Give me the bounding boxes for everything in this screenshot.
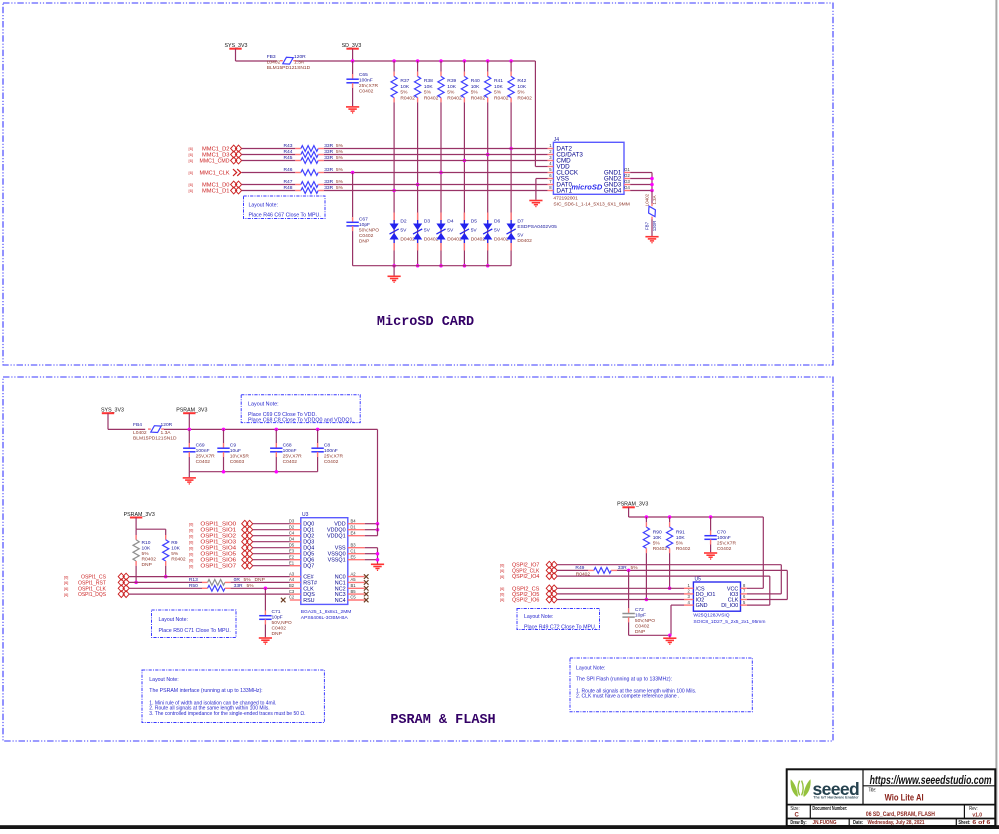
svg-text:D0402: D0402 — [494, 236, 509, 242]
svg-text:[6]: [6] — [189, 557, 193, 562]
svg-text:DNP: DNP — [359, 239, 369, 245]
svg-text:5V: 5V — [471, 228, 478, 234]
svg-text:10K: 10K — [471, 84, 480, 90]
svg-text:33R: 33R — [324, 185, 333, 191]
svg-text:Place R50 C71 Close To MPU.: Place R50 C71 Close To MPU. — [159, 628, 231, 634]
svg-text:1.3A: 1.3A — [161, 430, 172, 436]
svg-text:D0402: D0402 — [447, 236, 462, 242]
svg-text:5%: 5% — [171, 551, 179, 557]
svg-text:BLM15PD121SN1D: BLM15PD121SN1D — [133, 435, 177, 441]
svg-text:C0603: C0603 — [230, 459, 245, 465]
svg-text:Title:: Title: — [869, 787, 877, 793]
svg-text:BGA25_1_8x8x1_2MM: BGA25_1_8x8x1_2MM — [301, 609, 352, 615]
svg-text:120R: 120R — [294, 54, 306, 60]
svg-text:R0402: R0402 — [471, 95, 486, 101]
svg-text:5%: 5% — [517, 90, 525, 96]
svg-text:5%: 5% — [631, 565, 639, 571]
svg-text:[6]: [6] — [500, 562, 504, 567]
svg-text:DQ7: DQ7 — [303, 564, 314, 570]
svg-text:R0402: R0402 — [676, 546, 691, 552]
svg-text:E4: E4 — [350, 530, 356, 535]
svg-text:5%: 5% — [494, 90, 502, 96]
svg-text:10K: 10K — [494, 84, 503, 90]
svg-text:5%: 5% — [653, 540, 661, 546]
svg-text:Wio Lite AI: Wio Lite AI — [885, 792, 924, 802]
svg-text:0R: 0R — [234, 577, 241, 583]
svg-text:Layout Note:: Layout Note: — [149, 677, 178, 683]
svg-text:D5: D5 — [471, 218, 478, 224]
svg-text:C0402: C0402 — [196, 459, 211, 465]
svg-text:[6]: [6] — [64, 574, 68, 579]
svg-text:SIC_SD6-1_1-14_5X13_6X1_9MM: SIC_SD6-1_1-14_5X13_6X1_9MM — [553, 201, 629, 207]
svg-text:E2: E2 — [289, 554, 295, 559]
svg-text:Wednesday, July 28, 2021: Wednesday, July 28, 2021 — [868, 820, 925, 826]
svg-text:10K: 10K — [424, 84, 433, 90]
svg-text:2. CLK must have a compete ref: 2. CLK must have a compete reference pla… — [576, 694, 679, 700]
svg-text:[6]: [6] — [189, 551, 193, 556]
svg-text:120R: 120R — [652, 221, 657, 232]
svg-text:B1: B1 — [350, 583, 356, 588]
svg-text:10K: 10K — [447, 84, 456, 90]
svg-text:ESDPSA0402V05: ESDPSA0402V05 — [517, 224, 557, 230]
svg-text:472192001: 472192001 — [553, 196, 578, 202]
svg-text:[6]: [6] — [500, 574, 504, 579]
svg-text:MMC1_CMD: MMC1_CMD — [200, 159, 230, 165]
svg-text:10pF: 10pF — [272, 615, 283, 621]
svg-text:D1: D1 — [350, 524, 356, 529]
svg-text:MMC1_CLK: MMC1_CLK — [200, 171, 230, 177]
svg-text:[6]: [6] — [64, 580, 68, 585]
svg-text:Rev:: Rev: — [969, 806, 978, 812]
svg-text:[6]: [6] — [189, 521, 193, 526]
svg-text:FB3: FB3 — [267, 54, 276, 60]
svg-text:FB7: FB7 — [645, 221, 650, 230]
svg-text:C69: C69 — [196, 442, 205, 448]
svg-text:R44: R44 — [284, 149, 293, 155]
svg-text:https://www.seeedstudio.com: https://www.seeedstudio.com — [870, 773, 992, 787]
svg-text:33R: 33R — [618, 565, 627, 571]
svg-text:DNP: DNP — [635, 629, 645, 635]
svg-text:R42: R42 — [517, 78, 526, 84]
svg-text:OSPI1_DQS: OSPI1_DQS — [78, 592, 106, 598]
svg-text:[6]: [6] — [189, 158, 193, 163]
svg-text:R0402: R0402 — [653, 546, 668, 552]
svg-text:33R: 33R — [324, 149, 333, 155]
svg-text:5%: 5% — [447, 90, 455, 96]
svg-text:C0402: C0402 — [635, 624, 650, 630]
svg-text:5V: 5V — [517, 232, 524, 238]
svg-text:Layout Note:: Layout Note: — [159, 617, 188, 623]
svg-text:10K: 10K — [171, 546, 180, 552]
svg-text:5%: 5% — [336, 167, 344, 173]
svg-text:BLM15PD121SN1D: BLM15PD121SN1D — [267, 65, 311, 71]
svg-text:10K: 10K — [517, 84, 526, 90]
svg-text:C2: C2 — [289, 595, 295, 600]
svg-text:5%: 5% — [336, 149, 344, 155]
svg-text:The IoT Hardware Enabler: The IoT Hardware Enabler — [813, 795, 859, 799]
svg-text:C0402: C0402 — [359, 233, 374, 239]
svg-text:10V,X5R: 10V,X5R — [230, 453, 250, 459]
svg-text:33R: 33R — [324, 143, 333, 149]
svg-text:[6]: [6] — [500, 592, 504, 597]
svg-text:D0402: D0402 — [517, 238, 532, 244]
svg-text:06 SD_Card, PSRAM, FLASH: 06 SD_Card, PSRAM, FLASH — [866, 811, 935, 818]
svg-text:6 of 6: 6 of 6 — [972, 820, 990, 826]
svg-text:DNP: DNP — [142, 562, 152, 568]
svg-text:D2: D2 — [400, 218, 407, 224]
svg-text:R10: R10 — [142, 540, 151, 546]
svg-text:B3: B3 — [350, 542, 356, 547]
svg-text:D0402: D0402 — [424, 236, 439, 242]
svg-text:R0402: R0402 — [142, 557, 157, 563]
svg-text:NC4: NC4 — [335, 598, 346, 604]
svg-text:R37: R37 — [400, 78, 409, 84]
svg-text:D5: D5 — [289, 542, 295, 547]
svg-text:DNP: DNP — [255, 577, 265, 583]
svg-text:SOIC8_1D27_5_2x5_2x1_95mm: SOIC8_1D27_5_2x5_2x1_95mm — [693, 619, 765, 625]
svg-text:5%: 5% — [336, 185, 344, 191]
svg-text:10K: 10K — [653, 535, 662, 541]
svg-text:C67: C67 — [359, 217, 368, 223]
svg-text:L0402: L0402 — [133, 430, 147, 436]
svg-text:5%: 5% — [676, 540, 684, 546]
svg-text:v1.0: v1.0 — [972, 813, 982, 819]
svg-text:C72: C72 — [635, 607, 644, 613]
svg-text:[6]: [6] — [189, 563, 193, 568]
svg-text:10K: 10K — [400, 84, 409, 90]
svg-text:B5: B5 — [350, 589, 356, 594]
svg-text:D4: D4 — [289, 536, 295, 541]
svg-text:1.3A: 1.3A — [294, 59, 305, 65]
svg-text:MMC1_D1: MMC1_D1 — [202, 189, 230, 195]
svg-text:5%: 5% — [400, 90, 408, 96]
svg-text:QSPI2_IO6: QSPI2_IO6 — [512, 598, 539, 604]
svg-text:Layout Note:: Layout Note: — [524, 614, 553, 620]
svg-text:APS6406L-3OBM-BA: APS6406L-3OBM-BA — [301, 615, 349, 621]
svg-text:C0402: C0402 — [283, 459, 298, 465]
svg-text:[6]: [6] — [189, 146, 193, 151]
svg-text:120R: 120R — [161, 422, 173, 428]
svg-text:OSPI1_SIO7: OSPI1_SIO7 — [200, 564, 236, 570]
svg-text:10K: 10K — [142, 546, 151, 552]
svg-text:C0402: C0402 — [324, 459, 339, 465]
svg-text:R49: R49 — [575, 565, 584, 571]
svg-text:Place C68 C8 Close To VDDQ0 a: Place C68 C8 Close To VDDQ0 and VDDQ1. — [248, 418, 354, 424]
svg-text:R0402: R0402 — [517, 95, 532, 101]
svg-text:R0402: R0402 — [424, 95, 439, 101]
svg-text:[6]: [6] — [189, 527, 193, 532]
svg-text:R41: R41 — [494, 78, 503, 84]
svg-text:R91: R91 — [676, 529, 685, 535]
svg-text:C8: C8 — [324, 442, 331, 448]
svg-text:GND: GND — [696, 603, 708, 609]
svg-text:C65: C65 — [359, 72, 368, 78]
svg-text:FB4: FB4 — [133, 422, 142, 428]
svg-text:[6]: [6] — [500, 586, 504, 591]
svg-text:25V,X7R: 25V,X7R — [359, 83, 379, 89]
svg-text:L0402: L0402 — [645, 193, 650, 206]
svg-text:Document Number:: Document Number: — [812, 806, 847, 812]
svg-text:A4: A4 — [289, 577, 295, 582]
svg-text:A2: A2 — [350, 571, 356, 576]
svg-text:100nF: 100nF — [359, 78, 373, 84]
svg-text:A3: A3 — [289, 571, 295, 576]
svg-text:Sheet:: Sheet: — [958, 820, 970, 826]
svg-text:C9: C9 — [230, 442, 237, 448]
svg-text:Place R49 C72 Close To MPU.: Place R49 C72 Close To MPU. — [524, 624, 596, 630]
svg-text:5%: 5% — [424, 90, 432, 96]
svg-text:25V,X7R: 25V,X7R — [283, 453, 303, 459]
svg-text:33R: 33R — [324, 167, 333, 173]
svg-text:5%: 5% — [244, 577, 252, 583]
svg-text:[6]: [6] — [189, 152, 193, 157]
svg-text:[6]: [6] — [64, 586, 68, 591]
svg-text:C1: C1 — [350, 548, 356, 553]
svg-text:R0402: R0402 — [171, 557, 186, 563]
svg-text:[6]: [6] — [189, 545, 193, 550]
svg-text:VDDQ1: VDDQ1 — [327, 534, 346, 540]
svg-text:E3: E3 — [289, 548, 295, 553]
svg-text:RSU: RSU — [303, 598, 314, 604]
svg-text:D3: D3 — [289, 518, 295, 523]
svg-text:W25Q128JVSIQ: W25Q128JVSIQ — [693, 613, 729, 619]
svg-text:The PSRAM interface (running a: The PSRAM interface (running at up to 13… — [149, 688, 262, 694]
svg-text:R90: R90 — [653, 529, 662, 535]
svg-text:A5: A5 — [350, 577, 356, 582]
svg-text:Size:: Size: — [790, 806, 799, 812]
svg-text:[6]: [6] — [189, 539, 193, 544]
svg-text:D4: D4 — [447, 218, 454, 224]
svg-text:5%: 5% — [336, 155, 344, 161]
svg-text:25V,X7R: 25V,X7R — [717, 540, 737, 546]
svg-text:5V: 5V — [424, 228, 431, 234]
svg-text:25V,X7R: 25V,X7R — [196, 453, 216, 459]
svg-text:[6]: [6] — [500, 597, 504, 602]
svg-text:[6]: [6] — [64, 592, 68, 597]
svg-text:J4: J4 — [554, 137, 560, 143]
svg-text:DAT1: DAT1 — [556, 188, 572, 195]
svg-text:R0402: R0402 — [494, 95, 509, 101]
svg-text:5V: 5V — [494, 228, 501, 234]
svg-text:R0402: R0402 — [447, 95, 462, 101]
svg-text:[6]: [6] — [500, 568, 504, 573]
svg-text:D0402: D0402 — [471, 236, 486, 242]
svg-text:C0402: C0402 — [272, 626, 287, 632]
svg-text:5V: 5V — [400, 228, 407, 234]
svg-text:G3: G3 — [624, 179, 630, 184]
svg-text:microSD: microSD — [571, 182, 602, 191]
svg-text:25V,X7R: 25V,X7R — [324, 453, 344, 459]
svg-text:D0402: D0402 — [400, 236, 415, 242]
svg-text:R0402: R0402 — [400, 95, 415, 101]
svg-text:33R: 33R — [324, 155, 333, 161]
svg-text:E1: E1 — [289, 560, 295, 565]
svg-text:R48: R48 — [284, 185, 293, 191]
svg-text:Place R46 C67 Close To MPU.: Place R46 C67 Close To MPU. — [249, 213, 321, 219]
svg-text:B4: B4 — [350, 518, 356, 523]
svg-text:10pF: 10pF — [359, 222, 370, 228]
svg-text:1.3A: 1.3A — [652, 195, 657, 204]
svg-text:10uF: 10uF — [230, 448, 241, 454]
svg-text:[6]: [6] — [189, 182, 193, 187]
svg-text:QSPI2_IO4: QSPI2_IO4 — [512, 574, 539, 580]
svg-text:5%: 5% — [247, 583, 255, 589]
svg-text:33R: 33R — [234, 583, 243, 589]
svg-text:C5: C5 — [350, 595, 356, 600]
svg-text:50V,NPO: 50V,NPO — [359, 228, 379, 234]
svg-text:D6: D6 — [494, 218, 501, 224]
svg-text:100nF: 100nF — [324, 448, 338, 454]
svg-text:MicroSD CARD: MicroSD CARD — [377, 315, 474, 330]
svg-text:C4: C4 — [289, 530, 295, 535]
svg-text:PSRAM & FLASH: PSRAM & FLASH — [390, 713, 495, 728]
svg-text:50V,NPO: 50V,NPO — [272, 620, 292, 626]
svg-text:C0402: C0402 — [359, 89, 374, 95]
svg-text:100nF: 100nF — [283, 448, 297, 454]
svg-text:C70: C70 — [717, 529, 726, 535]
svg-text:[6]: [6] — [189, 170, 193, 175]
svg-text:DI_IO0: DI_IO0 — [721, 603, 738, 609]
svg-text:100nF: 100nF — [717, 535, 731, 541]
svg-text:5%: 5% — [336, 143, 344, 149]
svg-text:[6]: [6] — [189, 188, 193, 193]
svg-text:R39: R39 — [447, 78, 456, 84]
svg-text:10K: 10K — [676, 535, 685, 541]
svg-text:U5: U5 — [695, 577, 702, 583]
svg-text:D2: D2 — [289, 524, 295, 529]
svg-text:E5: E5 — [350, 554, 356, 559]
svg-text:R9: R9 — [171, 540, 178, 546]
svg-text:C0402: C0402 — [717, 546, 732, 552]
svg-text:JN.FUONG: JN.FUONG — [813, 820, 837, 826]
svg-text:R46: R46 — [284, 167, 293, 173]
svg-text:Layout Note:: Layout Note: — [576, 666, 605, 672]
svg-text:G1: G1 — [624, 167, 630, 172]
svg-text:C3: C3 — [289, 589, 295, 594]
svg-text:50V,NPO: 50V,NPO — [635, 618, 655, 624]
svg-text:3. The controlled impedance fo: 3. The controlled impedance for the sing… — [149, 711, 305, 717]
svg-text:5%: 5% — [471, 90, 479, 96]
svg-text:33R: 33R — [324, 179, 333, 185]
svg-text:10pF: 10pF — [635, 613, 646, 619]
svg-text:R47: R47 — [284, 179, 293, 185]
svg-text:B2: B2 — [289, 583, 295, 588]
svg-text:R43: R43 — [284, 143, 293, 149]
svg-text:The SPI Flash (running at up t: The SPI Flash (running at up to 133MHz): — [576, 676, 672, 682]
svg-text:Layout Note:: Layout Note: — [249, 202, 278, 208]
svg-text:C71: C71 — [272, 609, 281, 615]
svg-text:G2: G2 — [624, 173, 630, 178]
svg-text:5%: 5% — [142, 551, 150, 557]
svg-text:R50: R50 — [189, 583, 198, 589]
svg-text:GND4: GND4 — [604, 188, 622, 195]
svg-text:VSSQ1: VSSQ1 — [328, 558, 346, 564]
svg-text:R38: R38 — [424, 78, 433, 84]
svg-text:G4: G4 — [624, 185, 630, 190]
svg-text:U3: U3 — [302, 512, 309, 518]
svg-text:[6]: [6] — [189, 533, 193, 538]
svg-text:5V: 5V — [447, 228, 454, 234]
svg-text:Draw By:: Draw By: — [790, 820, 806, 826]
svg-text:C68: C68 — [283, 442, 292, 448]
svg-text:DNP: DNP — [272, 631, 282, 637]
svg-text:D7: D7 — [517, 218, 524, 224]
svg-text:R45: R45 — [284, 155, 293, 161]
svg-text:R40: R40 — [471, 78, 480, 84]
svg-text:Layout Note:: Layout Note: — [248, 401, 279, 407]
svg-text:R13: R13 — [189, 577, 198, 583]
svg-text:L0402: L0402 — [267, 59, 281, 65]
svg-text:C: C — [795, 812, 800, 818]
svg-text:Date:: Date: — [853, 820, 863, 826]
svg-text:100nF: 100nF — [196, 448, 210, 454]
svg-text:D3: D3 — [424, 218, 431, 224]
svg-text:5%: 5% — [336, 179, 344, 185]
